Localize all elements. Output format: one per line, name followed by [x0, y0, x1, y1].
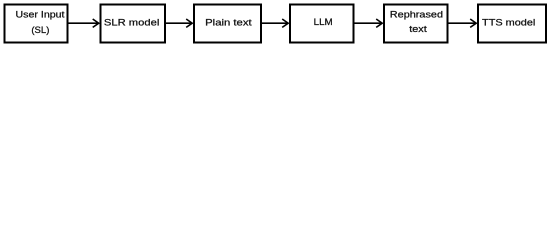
svg-text:SLR model: SLR model: [104, 17, 160, 28]
svg-text:LLM: LLM: [314, 17, 333, 28]
svg-text:User Input: User Input: [16, 9, 65, 20]
svg-text:TTS model: TTS model: [482, 17, 535, 28]
svg-text:Rephrased: Rephrased: [390, 10, 443, 21]
svg-text:Plain text: Plain text: [205, 17, 252, 28]
svg-text:(SL): (SL): [31, 25, 49, 36]
svg-text:text: text: [409, 24, 427, 35]
